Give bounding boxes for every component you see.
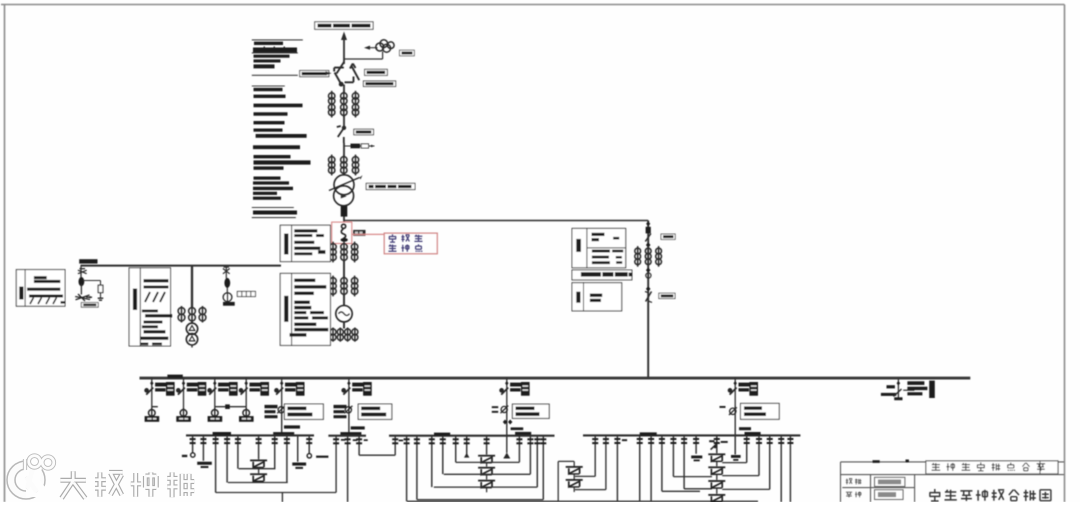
- wire to fault point: [343, 217, 345, 223]
- label QS2 lower: [363, 81, 395, 87]
- feeder label text: [218, 383, 231, 387]
- feeder 8 label box: [741, 403, 780, 419]
- tie contact: [225, 404, 230, 409]
- contact feeder: [182, 381, 185, 386]
- wire TA2 to U2: [258, 481, 260, 482]
- wire CT6 to T2: [191, 322, 193, 324]
- dry transformer TA1: [250, 460, 267, 469]
- wire TB chain 2: [486, 474, 488, 479]
- ground S1-b: [292, 463, 306, 466]
- S4 long feeders: [778, 435, 793, 502]
- main transformer T1: [329, 175, 363, 206]
- S2b feeder drops: [404, 436, 547, 502]
- current transformer CT3 group: [330, 242, 358, 263]
- label table B: [129, 268, 170, 346]
- arrow toward line: [364, 46, 370, 50]
- motor plate: [176, 416, 191, 422]
- label table D: [572, 228, 626, 267]
- wire TB chain 3: [486, 487, 488, 492]
- S3 feeder drops: [614, 435, 687, 502]
- watermark logo: [11, 455, 194, 498]
- tick title 2: [906, 460, 909, 463]
- audit cell: [846, 492, 852, 497]
- fuse F1 holder: [361, 144, 368, 148]
- vertical text E: [576, 292, 580, 303]
- dash F9b: [881, 393, 896, 396]
- feeder 8: [734, 378, 736, 407]
- wire to CT2: [343, 143, 345, 157]
- label F9 r1: [907, 381, 924, 385]
- breaker circle F8: [729, 407, 737, 415]
- feeder meter box: [166, 382, 175, 396]
- wire stub below U3: [281, 493, 283, 503]
- dash row F7: [511, 427, 524, 430]
- contact feeder: [347, 381, 350, 386]
- sub-bus S3-S4: [583, 434, 800, 436]
- loop S4-1 leg: [744, 435, 750, 462]
- generator G1: [336, 306, 352, 322]
- label 110kV line name: [315, 22, 373, 30]
- feeder x=348.9: [348, 378, 350, 407]
- contact F7b: [508, 420, 512, 425]
- dash left: [492, 406, 498, 408]
- red leader line: [352, 233, 384, 235]
- wire TD chain 4: [716, 501, 718, 503]
- wire arrester branch 2: [225, 266, 227, 279]
- knife switch: [500, 388, 508, 395]
- dry transformer TA2: [250, 473, 267, 482]
- wire TC mid: [573, 474, 575, 479]
- feeder 7 end arrow: [503, 453, 510, 459]
- loop U3: [216, 492, 337, 494]
- contact feeder: [280, 381, 283, 386]
- spare feeder stub: [897, 378, 899, 400]
- wire TD chain 3: [716, 488, 718, 494]
- reserve branch vertical: [647, 221, 649, 379]
- contact below QS4: [646, 242, 651, 247]
- knife switch: [275, 388, 283, 395]
- stub feeder1: [152, 406, 158, 408]
- S4 left drop: [693, 435, 699, 453]
- wire S3 elbow a: [662, 490, 700, 492]
- tick title 1: [873, 460, 880, 463]
- S2a feeder drops: [333, 436, 368, 502]
- breaker QF2: [646, 227, 651, 234]
- feeder label box: [284, 404, 323, 419]
- dry transformer TD1: [708, 453, 725, 462]
- contact F9: [897, 381, 901, 386]
- label QS2 upper: [365, 69, 388, 75]
- label generator bus: [79, 259, 97, 263]
- wire TD chain 1: [716, 461, 718, 466]
- fuse F1 body: [351, 144, 361, 149]
- disconnector QS4: [645, 234, 651, 242]
- vertical text C1: [284, 234, 288, 255]
- dry transformer TC2: [566, 479, 583, 488]
- feeder 7 label box: [512, 404, 549, 418]
- company name: [932, 463, 941, 470]
- label main transformer T1: [366, 183, 415, 189]
- bus joint cap: [273, 432, 294, 435]
- wire CT4 to generator: [343, 295, 345, 306]
- unit transformer T2: [186, 323, 197, 345]
- ground bar F8 low: [731, 455, 741, 458]
- wire TC tap2: [575, 489, 606, 491]
- label table E: [572, 283, 622, 311]
- breaker circle: [344, 406, 352, 414]
- loop U3 right leg: [335, 436, 337, 493]
- contact F7a: [503, 420, 507, 425]
- accident text line2: [388, 245, 396, 252]
- wire T2 below: [191, 345, 193, 348]
- knife switch: [208, 388, 216, 395]
- formula row A: [30, 298, 57, 305]
- PT2 circle: [223, 293, 232, 302]
- formula N/R: [145, 292, 165, 302]
- loop U2: [228, 482, 288, 484]
- sub-bus S2a: [328, 435, 366, 437]
- label QS4: [661, 234, 675, 239]
- dash left F8: [720, 406, 726, 408]
- wire generator to CT5: [343, 322, 345, 329]
- accident label box: [384, 233, 437, 254]
- S4 disconnect cluster: [709, 440, 714, 442]
- bus joint cap: [340, 432, 361, 435]
- breaker circle: [277, 406, 285, 414]
- loop U1: [239, 468, 276, 470]
- arrester discharge cluster: [75, 294, 92, 301]
- disconnector QS1: [334, 62, 344, 86]
- cap S1: [213, 432, 231, 435]
- sub-bus S1: [186, 434, 314, 436]
- arrow up on incoming line: [341, 32, 347, 41]
- wire TD chain top: [716, 435, 718, 453]
- contact top: [646, 221, 650, 226]
- contact feeder: [505, 381, 508, 386]
- dash S2a-1: [341, 439, 346, 441]
- knife switch F9: [894, 389, 902, 397]
- feeder 1: [151, 378, 153, 407]
- label PT1: [400, 50, 415, 56]
- loop S4-3 leg: [767, 435, 773, 489]
- loop L1: [456, 461, 520, 463]
- wire resistor tap: [83, 280, 101, 282]
- arrester gap symbol: [78, 269, 87, 274]
- approve cell: [846, 479, 852, 485]
- dash F9a: [887, 385, 895, 388]
- vertical text A: [19, 287, 23, 300]
- loop S4-3: [722, 488, 770, 490]
- loop L3: [434, 486, 538, 488]
- label PT2: [223, 302, 235, 306]
- disconnector QS5: [645, 292, 652, 303]
- surge arrester body: [79, 277, 85, 286]
- motor plate: [239, 416, 254, 422]
- wire TC tap2 up: [605, 436, 607, 490]
- label disconnector QS1: [300, 71, 329, 77]
- knife switch: [240, 388, 248, 395]
- tie wire feeder3-4: [215, 406, 246, 408]
- wire CT2 to T1: [343, 174, 345, 176]
- arrowhead into QS1: [326, 71, 332, 75]
- arrow tick fuse: [371, 145, 375, 148]
- feeder 3: [214, 378, 216, 407]
- note cell D: [572, 270, 632, 280]
- wire PT branch: [80, 266, 82, 279]
- feeder meter box: [363, 382, 372, 396]
- feeder label text: [250, 383, 263, 387]
- surge arrester MOA2: [224, 278, 230, 288]
- breaker circle F7: [501, 406, 509, 414]
- contact blob: [341, 238, 348, 242]
- feeder 2: [183, 378, 185, 407]
- arrester gap 2: [223, 267, 230, 274]
- blob F9 bottom: [894, 397, 902, 400]
- ground S1-a: [197, 462, 212, 465]
- current transformer CT7 group: [635, 246, 662, 267]
- label on bus: [167, 375, 182, 379]
- feeder meter box: [198, 382, 207, 396]
- dash S2b-0: [399, 440, 404, 442]
- wire TC tap1: [575, 475, 595, 477]
- title block: [841, 461, 1065, 502]
- dash S2a-3: [364, 439, 368, 441]
- feeder label text: [155, 383, 168, 387]
- cap S3: [640, 432, 657, 435]
- cap S2: [434, 433, 450, 436]
- current transformer CT2 group: [329, 155, 359, 176]
- resistor R1: [98, 285, 103, 292]
- blob above bus F8: [739, 427, 751, 430]
- loop S4-2: [722, 475, 759, 477]
- dash S2a-2: [353, 439, 358, 441]
- wire PT tap horizontal: [344, 58, 383, 60]
- wire arrester 2 down: [226, 288, 228, 293]
- dry transformer TB1: [478, 455, 495, 464]
- drawing title: [929, 489, 940, 501]
- accident highlight box: [332, 222, 352, 243]
- dash S3: [622, 439, 627, 441]
- dry transformer TB2: [478, 467, 495, 476]
- feeder label text: [510, 383, 522, 387]
- motor M2: [180, 408, 187, 418]
- wire S3 elbow c: [684, 488, 712, 490]
- insulator circle: [646, 273, 651, 278]
- feeder x=281.7: [281, 378, 283, 407]
- feeder meter box: [229, 382, 238, 396]
- wire TC bottom: [573, 487, 575, 492]
- knife switch: [145, 388, 153, 395]
- loop L2: [444, 473, 531, 475]
- label left: [265, 405, 278, 408]
- ground symbol: [98, 298, 104, 300]
- terminal block: [237, 291, 255, 296]
- tie wire S2a-S2b: [359, 454, 395, 456]
- dry transformer TB3: [478, 480, 495, 489]
- feeder meter box: [521, 382, 530, 396]
- wire TC top: [573, 461, 575, 466]
- feeder meter box: [296, 382, 305, 396]
- wire CT1 to QS3: [343, 116, 345, 128]
- vertical text B: [133, 289, 137, 311]
- motor plate: [208, 416, 223, 422]
- label QS3: [354, 129, 374, 135]
- meter box F9: [929, 381, 935, 398]
- wire TA chain: [258, 467, 260, 473]
- vertical text C2: [284, 296, 288, 322]
- dry transformer TC1: [566, 466, 583, 475]
- blob above bus F5: [284, 425, 300, 428]
- tie wire to reserve branch: [344, 220, 648, 222]
- bottom tie line: [407, 500, 758, 502]
- wire arrow tap: [369, 47, 378, 49]
- S1 feeder drops: [182, 436, 329, 493]
- wire arrester down: [80, 284, 82, 295]
- feeder label text: [285, 383, 298, 387]
- dry transformer TD2: [708, 466, 725, 475]
- wire F8 below bus: [734, 435, 736, 454]
- wire TC left leg: [557, 461, 559, 501]
- main low-voltage bus: [140, 377, 971, 380]
- contact feeder: [734, 381, 737, 386]
- bus joint cap F7: [515, 432, 531, 435]
- motor M1: [149, 408, 156, 418]
- contact feeder: [150, 381, 153, 386]
- loop S4-2 leg: [756, 435, 762, 475]
- label table A: [16, 270, 65, 307]
- feeder meter box: [749, 382, 758, 396]
- wire below disconnectors: [343, 85, 345, 94]
- generator bus: [81, 265, 282, 267]
- dry transformer TD4: [708, 494, 725, 503]
- current transformer CT1 group: [329, 91, 359, 118]
- disconnector QS2: [345, 64, 360, 83]
- motor plate: [145, 416, 160, 422]
- contact CT7 below: [646, 268, 651, 273]
- equipment spec list: [252, 40, 311, 218]
- wire PT tap vertical: [382, 52, 384, 60]
- label table C2: [280, 273, 330, 345]
- contact feeder: [245, 381, 248, 386]
- feeder 4: [245, 378, 247, 407]
- wire F9 tap: [903, 389, 914, 391]
- knife switch: [177, 388, 185, 395]
- earthing switch in accident box: [341, 224, 345, 238]
- wire S3 elbow b: [673, 476, 712, 478]
- label arrester branch: [81, 303, 98, 308]
- vertical text D: [576, 239, 581, 252]
- watermark text: [60, 471, 86, 498]
- label table C1: [280, 225, 330, 261]
- dry transformer TD3: [708, 480, 725, 489]
- tie riser: [394, 436, 396, 456]
- contact feeder: [213, 381, 216, 386]
- wire TC left: [558, 460, 574, 462]
- dash left S1: [182, 455, 187, 457]
- feeder meter box: [260, 382, 269, 396]
- wire fuse tap: [344, 145, 375, 147]
- wire TC tap1 up: [594, 436, 596, 477]
- dash right S1: [316, 456, 328, 458]
- accident text line1: [389, 234, 396, 242]
- knife switch: [729, 388, 737, 395]
- disconnector QS3: [337, 126, 346, 143]
- motor M3: [212, 408, 219, 418]
- cap S4: [745, 432, 761, 435]
- current transformer CT4 group: [330, 276, 358, 297]
- wire CT3 to CT4: [343, 261, 345, 278]
- wire resistor top: [100, 281, 102, 286]
- wire unit transformer branch: [191, 266, 193, 308]
- feeder label box: [358, 404, 392, 419]
- feeder label text: [352, 383, 365, 387]
- voltage transformer PT1: [376, 40, 394, 52]
- blob above bus F6: [351, 426, 365, 429]
- motor M4: [243, 408, 250, 418]
- current transformer CT6 group: [178, 306, 206, 323]
- contact above QS5: [646, 286, 651, 291]
- knife switch: [342, 388, 350, 395]
- label fault switch: [353, 230, 365, 236]
- feeder label text: [739, 383, 752, 387]
- feeder 7: [506, 378, 508, 407]
- ground bar S4 left: [691, 456, 702, 459]
- label QS5: [659, 293, 675, 298]
- wire TD chain 2: [716, 474, 718, 480]
- wire resistor bottom: [100, 293, 102, 298]
- breaker QF1 closed: [341, 206, 348, 217]
- wire incoming vertical: [343, 38, 345, 64]
- label left: [334, 405, 347, 408]
- wire TB chain 1: [486, 462, 488, 466]
- loop S4-1: [722, 462, 747, 464]
- feeder label text: [187, 383, 200, 387]
- loop L4: [417, 499, 543, 501]
- sub-bus S2b: [389, 435, 555, 437]
- current transformer CT5 group: [330, 328, 358, 342]
